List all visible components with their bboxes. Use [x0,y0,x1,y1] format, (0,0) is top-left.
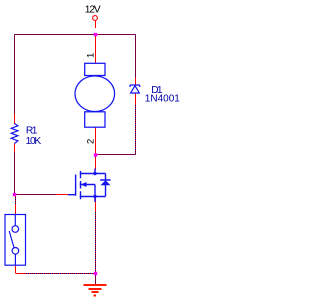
svg-text:10K: 10K [26,136,42,147]
svg-text:1: 1 [86,53,97,58]
svg-text:2: 2 [86,139,97,144]
svg-text:1N4001: 1N4001 [145,94,180,105]
svg-text:12V: 12V [85,5,101,16]
